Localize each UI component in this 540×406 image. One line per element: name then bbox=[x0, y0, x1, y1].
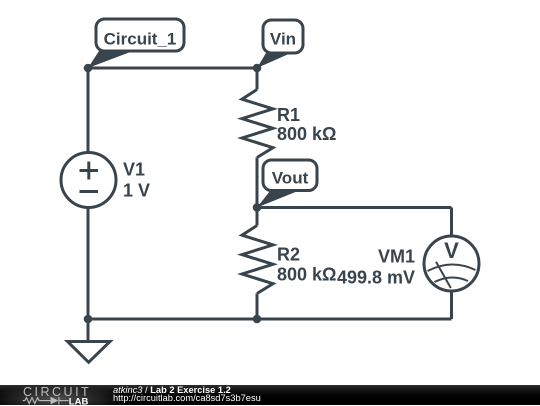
node Vin flag tail bbox=[257, 53, 291, 68]
wire R1 bottom lead to node Vout bbox=[256, 158, 259, 208]
bottom rail junction dot middle bbox=[253, 315, 262, 324]
voltmeter VM1 upper scale arc bbox=[428, 264, 476, 271]
node Vout junction dot bbox=[253, 203, 262, 212]
voltmeter VM1 needle bbox=[436, 262, 451, 288]
wire R1 top lead from node Vin bbox=[256, 68, 259, 90]
voltage source V1 plus sign bbox=[80, 162, 99, 180]
svg-text:VM1: VM1 bbox=[378, 247, 415, 267]
svg-text:V: V bbox=[444, 238, 459, 263]
wire left vertical lower (V1 bottom to bottom rail) bbox=[87, 208, 90, 320]
ground symbol triangle bbox=[68, 342, 111, 363]
resistor R2 zigzag body bbox=[242, 226, 273, 294]
wire R2 bottom lead bbox=[256, 294, 259, 320]
node Vin flag bubble bbox=[263, 20, 303, 53]
svg-text:Circuit_1: Circuit_1 bbox=[104, 29, 177, 48]
footer bar bbox=[0, 385, 540, 406]
footer credit text bbox=[113, 386, 261, 402]
wire ground lead bbox=[87, 319, 90, 342]
node Vin junction dot bbox=[253, 64, 262, 73]
wire top horizontal from node Circuit_1 to node Vin bbox=[88, 67, 257, 70]
wire voltmeter bottom lead bbox=[450, 291, 453, 319]
wire bottom rail bbox=[88, 318, 452, 321]
node Vout flag tail bbox=[257, 191, 298, 208]
svg-text:Vout: Vout bbox=[272, 169, 309, 188]
resistor R1 zigzag body bbox=[242, 90, 273, 158]
node Vout flag bubble bbox=[263, 160, 317, 191]
svg-text:800 kΩ: 800 kΩ bbox=[277, 124, 336, 144]
svg-text:R1: R1 bbox=[277, 105, 300, 125]
bottom rail junction dot left bbox=[84, 315, 93, 324]
svg-text:499.8 mV: 499.8 mV bbox=[337, 267, 415, 287]
svg-text:LAB: LAB bbox=[69, 396, 89, 406]
voltmeter VM1 lower scale arc bbox=[435, 277, 469, 282]
node Circuit_1 flag bubble bbox=[96, 19, 184, 51]
svg-text:R2: R2 bbox=[277, 245, 300, 265]
wire voltmeter top lead bbox=[450, 208, 453, 237]
voltage source V1 circle bbox=[61, 153, 116, 208]
node Circuit_1 junction dot bbox=[84, 64, 93, 73]
wire left vertical upper (node Circuit_1 to V1 top) bbox=[87, 68, 90, 153]
voltage source V1 minus sign bbox=[80, 190, 99, 193]
CircuitLab logo bbox=[14, 386, 100, 406]
voltmeter VM1 circle bbox=[424, 236, 479, 291]
wire R2 top lead from node Vout bbox=[256, 208, 259, 226]
svg-text:Vin: Vin bbox=[270, 29, 296, 48]
node Circuit_1 flag tail bbox=[88, 51, 133, 68]
svg-text:1 V: 1 V bbox=[123, 180, 150, 200]
svg-text:V1: V1 bbox=[123, 160, 145, 180]
svg-text:800 kΩ: 800 kΩ bbox=[277, 265, 336, 285]
wire Vout horizontal to voltmeter branch bbox=[257, 206, 452, 209]
